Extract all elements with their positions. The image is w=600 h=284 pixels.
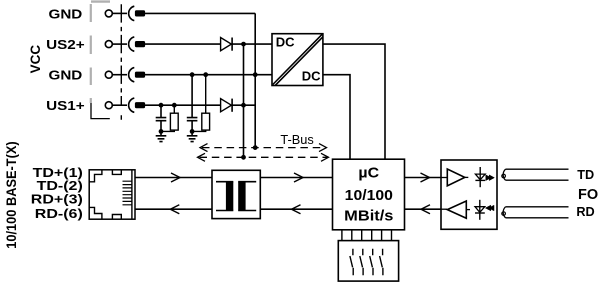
wire +rail (diode OR output) down to T-Bus bbox=[243, 44, 245, 157]
wire DC/DC upper output to uC bbox=[323, 44, 385, 159]
svg-text:GND: GND bbox=[49, 69, 83, 83]
ground (PE) under C1/R1 bbox=[156, 131, 167, 141]
wire GND (2nd) to DC/DC bbox=[145, 74, 272, 76]
ground (PE) under C2/R2 bbox=[187, 131, 198, 141]
junction dot (243.5,157.3) bbox=[241, 155, 246, 160]
T-Bus lower dashed line bbox=[200, 156, 328, 158]
terminal contact 2 circle bbox=[105, 41, 112, 48]
capacitor C1 bbox=[156, 105, 167, 131]
T-Bus upper dashed line bbox=[202, 147, 325, 149]
arrow right transformer-uC bbox=[294, 173, 303, 182]
svg-text:TD+(1): TD+(1) bbox=[33, 166, 83, 180]
diode D2 bbox=[221, 99, 232, 112]
RJ45 jack X1 outline bbox=[89, 170, 135, 219]
fiber optic transceiver U3 box bbox=[441, 160, 497, 229]
terminal contact 2 wire stub bbox=[112, 43, 127, 45]
svg-text:US2+: US2+ bbox=[46, 38, 85, 52]
microcontroller U1 box bbox=[333, 159, 405, 230]
junction dot (192.1,131.4) bbox=[190, 129, 195, 134]
terminal strip dash-dot line bbox=[120, 4, 122, 120]
svg-text:10/100: 10/100 bbox=[345, 188, 393, 204]
switch contact 4 bbox=[380, 249, 383, 275]
junction dot (243.5,105.2) bbox=[241, 103, 246, 108]
wire optics box edge to RX amp bbox=[441, 208, 447, 210]
wire US1+ diode to rails bbox=[232, 104, 255, 106]
junction dot (255.2,74.7) bbox=[253, 72, 258, 77]
transformer primary winding bbox=[216, 182, 233, 211]
svg-text:MBit/s: MBit/s bbox=[344, 209, 393, 225]
svg-text:10/100 BASE-T(X): 10/100 BASE-T(X) bbox=[3, 141, 19, 249]
switch contact 1 bbox=[350, 249, 353, 275]
wire US2+ to diode bbox=[145, 43, 221, 45]
terminal contact 1 circle bbox=[105, 10, 112, 17]
fiber cable TD tube bbox=[506, 169, 569, 180]
arrow left uC-transformer bbox=[292, 205, 301, 214]
transformer secondary winding bbox=[238, 182, 256, 211]
svg-text:RD: RD bbox=[576, 205, 594, 219]
bracket corner (black L below US1+ label) bbox=[91, 103, 110, 119]
svg-text:US1+: US1+ bbox=[46, 99, 85, 113]
RJ45 inner right wall bbox=[131, 170, 133, 219]
wire optics box edge to TX amp bbox=[441, 177, 447, 179]
wires uC to DIP switches bbox=[342, 230, 392, 241]
wire uC to transformer (RX) bbox=[260, 208, 332, 210]
RJ45 top-left step bbox=[89, 170, 102, 182]
junction dot (205.7,74.7) bbox=[203, 72, 208, 77]
RX light arrows bbox=[485, 205, 494, 211]
wire DC/DC lower output to uC bbox=[323, 75, 350, 160]
wire RJ45 to transformer (TX pair) bbox=[135, 177, 212, 179]
junction dot (192.1,74.7) bbox=[190, 72, 195, 77]
terminal contact 4 socket arc bbox=[129, 98, 135, 112]
wire TX amp to LED bbox=[465, 176, 469, 178]
fiber cable RD tube bbox=[506, 207, 569, 218]
terminal contact 4 wire stub bbox=[112, 104, 127, 106]
terminal contact 3 socket arc bbox=[129, 68, 135, 82]
arrow right on TX pair bbox=[171, 173, 180, 182]
diode D1 bbox=[221, 38, 232, 51]
terminal contact 2 socket arc bbox=[129, 37, 135, 51]
resistor R2 bbox=[205, 75, 207, 114]
RJ45 top notch bbox=[112, 170, 121, 175]
arrow left on RX pair bbox=[170, 205, 179, 214]
svg-text:TD-(2): TD-(2) bbox=[37, 179, 83, 193]
junction dot (161,131.4) bbox=[159, 129, 164, 134]
terminal contact 1 socket arc bbox=[129, 6, 135, 20]
wire optics to uC (RX) bbox=[405, 208, 442, 210]
svg-text:RD-(6): RD-(6) bbox=[35, 207, 83, 221]
RJ45 contact pins bbox=[123, 181, 132, 205]
terminal contact 1 wire stub bbox=[112, 12, 127, 14]
junction dot (174.3,105.2) bbox=[172, 103, 177, 108]
wire uC to optics (TX) bbox=[405, 177, 442, 179]
RX amplifier triangle bbox=[447, 201, 466, 218]
TX light arrows bbox=[486, 175, 495, 181]
wire transformer to RJ45 (RX pair) bbox=[135, 208, 212, 210]
DC/DC converter U2 box bbox=[272, 34, 323, 86]
terminal contact 4 plug blade bbox=[135, 102, 145, 108]
svg-text:µC: µC bbox=[358, 165, 379, 181]
svg-text:TD: TD bbox=[577, 168, 594, 182]
junction dot (243.5,44.1) bbox=[241, 42, 246, 47]
RJ45 bottom notch bbox=[112, 215, 121, 220]
TX driver amplifier triangle bbox=[447, 169, 465, 186]
svg-text:RD+(3): RD+(3) bbox=[31, 193, 83, 207]
switch contact 2 bbox=[360, 249, 363, 275]
arrow left optics-uC bbox=[421, 205, 430, 214]
wire RX amp to photodiode bbox=[466, 209, 470, 211]
svg-text:T-Bus: T-Bus bbox=[280, 132, 313, 147]
DC/DC diagonal double line bbox=[273, 34, 323, 85]
svg-text:GND: GND bbox=[49, 7, 83, 21]
svg-text:DC: DC bbox=[302, 68, 321, 83]
junction dot (161,105.2) bbox=[159, 103, 164, 108]
switch contact 3 bbox=[370, 249, 373, 275]
housing outline (gray dashed) vertical segments bbox=[90, 4, 92, 103]
terminal contact 4 circle bbox=[105, 102, 112, 109]
wire transformer to uC (TX) bbox=[260, 177, 332, 179]
wire GND (top) to down-rail bbox=[145, 12, 255, 14]
svg-text:FO: FO bbox=[578, 187, 598, 203]
terminal contact 3 wire stub bbox=[112, 74, 127, 76]
DIP switch S1 box bbox=[338, 241, 398, 282]
housing outline (gray dashed) top segment bbox=[91, 0, 110, 2]
junction dot (255.2,147.6) bbox=[253, 145, 258, 150]
transformer T1 box bbox=[212, 170, 260, 218]
wire US1+ to diode bbox=[145, 104, 221, 106]
transmit LED bbox=[479, 167, 481, 187]
arrow right uC-optics bbox=[421, 173, 430, 182]
capacitor C2 bbox=[187, 75, 198, 132]
receive photodiode bbox=[479, 200, 481, 220]
wire US2+ diode to DC/DC bbox=[232, 43, 272, 45]
terminal contact 3 plug blade bbox=[135, 72, 145, 78]
terminal contact 2 plug blade bbox=[135, 41, 145, 47]
RJ45 bottom-left step bbox=[89, 207, 102, 219]
svg-text:DC: DC bbox=[276, 35, 295, 50]
wire GND rail down to T-Bus bbox=[254, 13, 256, 147]
terminal contact 1 plug blade bbox=[135, 10, 145, 16]
terminal contact 3 circle bbox=[105, 71, 112, 78]
resistor R1 bbox=[173, 105, 175, 113]
svg-text:VCC: VCC bbox=[28, 45, 43, 74]
